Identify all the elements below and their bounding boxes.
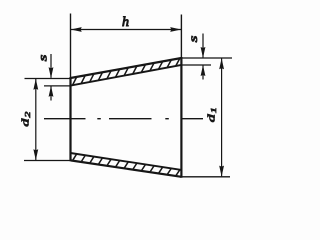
svg-text:s: s xyxy=(188,35,201,42)
hatching bottom wall xyxy=(73,154,180,176)
extension line d2 top (outer surface, left) xyxy=(25,78,71,80)
dimension line d2 xyxy=(35,79,37,160)
bottom wall inner edge xyxy=(71,153,182,170)
hatching top wall xyxy=(73,58,180,85)
extension line s left inner xyxy=(44,85,70,87)
dimension line h xyxy=(71,29,181,31)
arrowhead d1 down xyxy=(219,166,224,177)
arrowhead d2 up xyxy=(33,79,38,90)
svg-text:d2: d2 xyxy=(19,112,32,127)
extension line d2 bottom (outer surface, left) xyxy=(24,160,70,162)
extension line right (h) xyxy=(180,15,182,59)
center line (dash-dot axis) xyxy=(44,118,203,120)
svg-text:d1: d1 xyxy=(205,107,218,122)
arrowhead d1 up xyxy=(219,58,224,69)
extension line d1 bottom (outer surface, right) xyxy=(182,176,230,178)
arrowhead h left xyxy=(71,27,82,32)
extension line d1 top (outer surface, right) xyxy=(182,57,232,59)
arrowhead h right xyxy=(170,27,181,32)
top wall inner edge xyxy=(71,65,182,86)
cone right end face xyxy=(180,57,182,178)
svg-text:s: s xyxy=(37,54,50,61)
extension line left (h / end face projection) xyxy=(70,14,72,79)
svg-text:h: h xyxy=(122,15,129,30)
bottom wall outer edge xyxy=(71,160,182,176)
s left lower arrow (up) xyxy=(50,86,52,100)
top wall outer edge xyxy=(71,58,182,78)
dimension line d1 xyxy=(221,59,223,177)
s right lower arrow (up) xyxy=(202,65,204,79)
s right upper arrow (down) xyxy=(202,34,204,58)
arrowhead d2 down xyxy=(33,149,38,160)
s left upper arrow (down) xyxy=(50,54,52,78)
extension line s right inner xyxy=(182,64,211,66)
cone left end face xyxy=(69,77,71,161)
